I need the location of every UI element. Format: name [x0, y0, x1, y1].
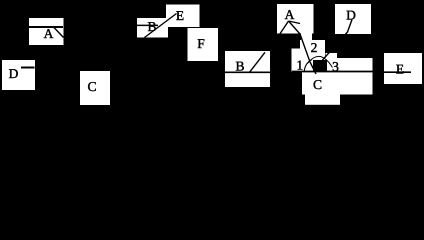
- svg-text:C: C: [313, 77, 322, 92]
- svg-text:C: C: [87, 79, 96, 94]
- svg-text:E: E: [396, 62, 404, 77]
- svg-text:2: 2: [311, 40, 318, 55]
- svg-text:D: D: [9, 66, 19, 81]
- svg-text:1: 1: [296, 58, 303, 73]
- svg-text:A: A: [44, 26, 54, 41]
- svg-text:D: D: [346, 8, 356, 23]
- svg-text:B: B: [235, 59, 244, 74]
- svg-text:A: A: [285, 7, 295, 22]
- svg-text:E: E: [176, 8, 184, 23]
- svg-text:B: B: [147, 19, 156, 34]
- svg-text:F: F: [197, 36, 205, 51]
- svg-text:3: 3: [332, 59, 339, 74]
